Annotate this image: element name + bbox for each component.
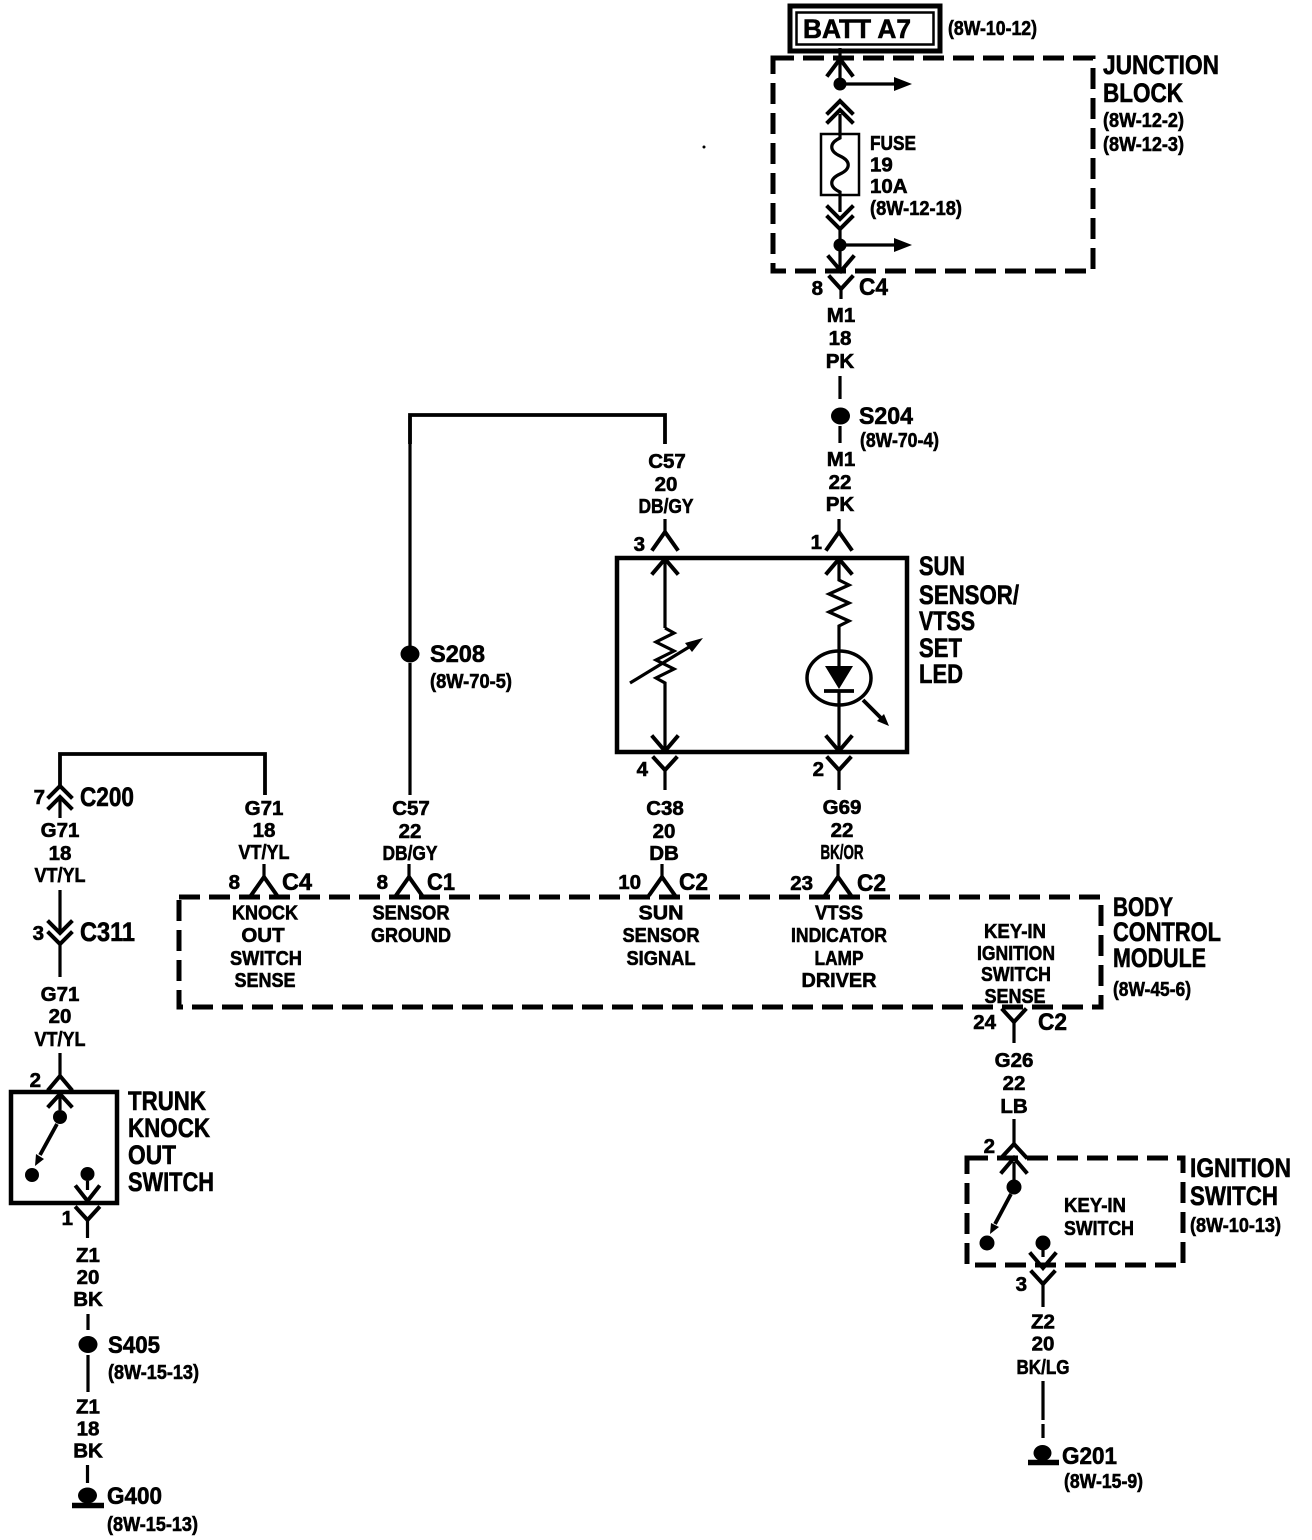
svg-text:(8W-15-13): (8W-15-13): [108, 1361, 199, 1384]
svg-text:OUT: OUT: [128, 1140, 176, 1170]
svg-text:VT/YL: VT/YL: [239, 841, 290, 864]
svg-text:20: 20: [655, 473, 678, 496]
scan noise dot: [703, 146, 706, 149]
wire to pin 4 exit arrow: [653, 687, 677, 751]
svg-text:18: 18: [829, 327, 852, 350]
wire label G71 20 VT/YL: [35, 983, 86, 1051]
wire M1 18 PK segment: [838, 376, 841, 399]
svg-text:3: 3: [634, 533, 645, 556]
photocell variable resistor: [630, 628, 703, 687]
svg-text:IGNITION: IGNITION: [1190, 1153, 1291, 1183]
svg-text:SENSE: SENSE: [985, 985, 1046, 1008]
LED VTSS set indicator: [807, 651, 889, 726]
reference (8W-10-12) for BATT A7: [948, 17, 1037, 40]
reference (8W-15-9): [1064, 1470, 1143, 1493]
body control module label: [1113, 892, 1221, 1001]
svg-text:M1: M1: [827, 448, 855, 471]
fuse label FUSE 19 10A (8W-12-18): [870, 132, 962, 220]
svg-text:10A: 10A: [870, 175, 908, 198]
svg-text:C4: C4: [859, 274, 888, 301]
connector pin 1 (sun sensor): [811, 519, 851, 554]
svg-text:20: 20: [49, 1005, 72, 1028]
svg-text:19: 19: [870, 154, 893, 177]
splice S208: [401, 641, 486, 668]
svg-text:SUN: SUN: [919, 551, 965, 581]
in-line connector C311 pin 3: [33, 917, 135, 947]
svg-text:SWITCH: SWITCH: [128, 1167, 214, 1197]
wire Z1 segment: [86, 1314, 89, 1330]
svg-text:GROUND: GROUND: [371, 924, 451, 947]
wire label Z2 20 BK/LG: [1017, 1311, 1070, 1380]
connector pin 2 (ignition switch): [984, 1119, 1026, 1158]
svg-text:(8W-10-13): (8W-10-13): [1190, 1214, 1281, 1237]
svg-text:Z2: Z2: [1031, 1311, 1055, 1334]
svg-text:SENSOR: SENSOR: [373, 902, 450, 925]
in-line connector C200 pin 7: [34, 782, 134, 818]
trunk knock out switch box: [11, 1092, 117, 1203]
svg-text:(8W-45-6): (8W-45-6): [1113, 978, 1191, 1001]
wire label C38 20 DB: [646, 797, 684, 865]
svg-text:S208: S208: [430, 641, 485, 668]
svg-text:3: 3: [33, 922, 44, 945]
pin function sensor ground: [371, 902, 451, 948]
svg-text:1: 1: [62, 1207, 73, 1230]
svg-text:MODULE: MODULE: [1113, 943, 1206, 973]
svg-text:DB/GY: DB/GY: [639, 495, 694, 518]
svg-text:23: 23: [790, 872, 813, 895]
svg-text:S405: S405: [108, 1332, 160, 1359]
wire segment below C311: [58, 944, 61, 977]
svg-text:2: 2: [984, 1135, 995, 1158]
svg-text:PK: PK: [826, 493, 855, 516]
ignition switch dashed box: [967, 1158, 1183, 1265]
wire label M1 22 PK: [826, 448, 855, 516]
svg-text:C200: C200: [80, 782, 134, 812]
svg-text:DB/GY: DB/GY: [383, 842, 438, 865]
svg-text:BK: BK: [73, 1288, 103, 1311]
key-in switch label: [1064, 1194, 1134, 1240]
svg-text:KNOCK: KNOCK: [232, 902, 298, 925]
svg-text:S204: S204: [859, 403, 913, 430]
svg-text:LB: LB: [1000, 1095, 1027, 1118]
svg-text:24: 24: [973, 1011, 996, 1034]
svg-text:18: 18: [253, 819, 276, 842]
svg-text:DB: DB: [649, 842, 679, 865]
key-in switch common contact: [1007, 1180, 1022, 1195]
svg-text:BK/LG: BK/LG: [1017, 1356, 1070, 1379]
svg-text:C311: C311: [80, 917, 135, 947]
svg-text:VT/YL: VT/YL: [35, 864, 86, 887]
sun sensor / VTSS set LED box: [617, 558, 907, 752]
svg-text:BK/OR: BK/OR: [821, 841, 864, 864]
svg-text:Z1: Z1: [76, 1244, 100, 1267]
svg-text:SWITCH: SWITCH: [1190, 1181, 1278, 1211]
resistor (VTSS LED series): [829, 575, 849, 631]
in-line connector chevrons (wire continues): [828, 101, 852, 134]
wire to pin 3 exit arrow: [1031, 1250, 1055, 1268]
key-in switch output contact: [1036, 1236, 1051, 1251]
svg-text:(8W-15-9): (8W-15-9): [1064, 1470, 1143, 1493]
junction block label: [1103, 50, 1219, 156]
trunk switch blade (open): [35, 1124, 57, 1166]
svg-text:OUT: OUT: [241, 924, 285, 947]
svg-text:BLOCK: BLOCK: [1103, 78, 1183, 108]
connector C4 pin 8 (junction block output): [812, 274, 889, 301]
svg-text:JUNCTION: JUNCTION: [1103, 50, 1219, 80]
pin function knock out switch sense: [230, 902, 302, 993]
connector pin 2 (trunk knock out switch): [30, 1053, 71, 1092]
key-in switch open contact: [980, 1236, 995, 1251]
ignition switch label: [1190, 1153, 1291, 1237]
junction dot (feed node): [834, 78, 847, 91]
wire label G71 18 VT/YL (left column): [35, 819, 86, 887]
connector pin 3 (ignition switch): [1016, 1272, 1054, 1307]
svg-text:TRUNK: TRUNK: [128, 1086, 206, 1116]
svg-text:(8W-12-3): (8W-12-3): [1103, 133, 1184, 156]
svg-text:SENSE: SENSE: [235, 969, 296, 992]
trunk knock out switch label: [128, 1086, 214, 1197]
connector pin 4 (below sun sensor): [637, 758, 676, 790]
BCM connector pin 10 C2: [618, 864, 708, 896]
svg-text:2: 2: [30, 1069, 41, 1092]
connector pin 1 (trunk knock out switch): [62, 1207, 99, 1238]
svg-text:VT/YL: VT/YL: [35, 1028, 86, 1051]
wire to pin 1 exit arrow: [77, 1181, 99, 1201]
pin 1 entry arrow inside box: [827, 559, 851, 575]
svg-text:(8W-15-13): (8W-15-13): [107, 1513, 198, 1536]
wire to pin 2 exit arrow: [827, 705, 851, 751]
splice S204: [831, 403, 913, 430]
wire label Z1 20 BK: [73, 1244, 103, 1311]
wire G71 branch horizontal (trunk switch to BCM): [60, 754, 265, 795]
svg-text:BK: BK: [73, 1440, 103, 1463]
svg-text:G71: G71: [245, 797, 284, 820]
wire from S208 branch horizontal: [410, 415, 665, 444]
wire below fuse: [838, 195, 841, 212]
wire resistor to LED: [837, 631, 840, 666]
body control module dashed box: [179, 897, 1101, 1007]
svg-text:G400: G400: [107, 1483, 162, 1510]
svg-text:SENSOR: SENSOR: [623, 924, 700, 947]
svg-text:SWITCH: SWITCH: [1064, 1217, 1134, 1240]
svg-text:C57: C57: [392, 797, 430, 820]
svg-text:G26: G26: [995, 1049, 1034, 1072]
svg-text:G71: G71: [41, 819, 80, 842]
wire to ground G201: [1041, 1381, 1044, 1438]
svg-text:7: 7: [34, 786, 45, 809]
svg-text:22: 22: [831, 819, 854, 842]
svg-text:(8W-12-18): (8W-12-18): [870, 197, 962, 220]
pin function key-in ignition switch sense: [977, 920, 1055, 1008]
wire label C57 20 DB/GY: [639, 450, 694, 518]
svg-text:1: 1: [811, 531, 822, 554]
svg-text:C2: C2: [1038, 1009, 1067, 1036]
svg-text:PK: PK: [826, 350, 855, 373]
feed arrow to other circuits (top): [841, 77, 912, 91]
svg-text:BATT A7: BATT A7: [803, 14, 911, 44]
svg-text:SWITCH: SWITCH: [981, 963, 1051, 986]
svg-text:8: 8: [377, 871, 388, 894]
svg-text:2: 2: [813, 758, 824, 781]
svg-text:INDICATOR: INDICATOR: [791, 924, 887, 947]
svg-text:3: 3: [1016, 1273, 1027, 1296]
svg-text:SUN: SUN: [639, 902, 684, 925]
junction block dashed box: [773, 58, 1093, 271]
fuse 19 10A: [821, 134, 859, 195]
svg-text:(8W-10-12): (8W-10-12): [948, 17, 1037, 40]
ground G400: [72, 1483, 162, 1510]
arrowhead down at junction block bottom edge: [829, 257, 853, 271]
svg-text:18: 18: [77, 1418, 100, 1441]
svg-text:(8W-12-2): (8W-12-2): [1103, 109, 1184, 132]
wire to ground G400: [86, 1465, 89, 1483]
svg-text:20: 20: [1032, 1333, 1055, 1356]
svg-text:(8W-70-5): (8W-70-5): [430, 670, 512, 693]
svg-text:(8W-70-4): (8W-70-4): [860, 429, 939, 452]
BCM connector pin 8 C4: [229, 864, 313, 896]
wire label M1 18 PK: [826, 304, 855, 373]
reference (8W-70-4): [860, 429, 939, 452]
wire below S204: [838, 426, 841, 443]
svg-text:4: 4: [637, 758, 649, 781]
svg-text:10: 10: [618, 871, 641, 894]
pin function VTSS indicator lamp driver: [791, 902, 887, 993]
svg-text:20: 20: [77, 1266, 100, 1289]
BCM connector pin 23 C2: [790, 864, 886, 897]
svg-text:LAMP: LAMP: [815, 947, 864, 970]
svg-text:C2: C2: [679, 869, 708, 896]
svg-text:C4: C4: [282, 869, 312, 896]
trunk switch common contact: [53, 1110, 67, 1124]
ground G201: [1028, 1443, 1117, 1470]
svg-text:LED: LED: [919, 659, 963, 689]
battery feed box BATT A7: [790, 6, 940, 51]
svg-text:8: 8: [812, 277, 823, 300]
svg-text:22: 22: [1003, 1072, 1026, 1095]
reference (8W-70-5): [430, 670, 512, 693]
svg-text:KEY-IN: KEY-IN: [1064, 1194, 1126, 1217]
wire label C57 22 DB/GY: [383, 797, 438, 865]
svg-text:VTSS: VTSS: [919, 606, 975, 636]
reference (8W-15-13) for G400: [107, 1513, 198, 1536]
key-in switch blade (open): [990, 1194, 1011, 1234]
svg-text:C1: C1: [427, 869, 455, 896]
svg-text:22: 22: [399, 820, 422, 843]
svg-text:KEY-IN: KEY-IN: [984, 920, 1046, 943]
wire to lower junction dot: [838, 229, 841, 269]
connector pin 2 (below sun sensor): [813, 758, 850, 790]
svg-text:22: 22: [829, 471, 852, 494]
BCM connector pin 24 C2: [973, 1009, 1067, 1043]
svg-text:SIGNAL: SIGNAL: [627, 947, 696, 970]
sun sensor label: [919, 551, 1020, 689]
pin 2 entry arrow inside ignition switch: [1002, 1158, 1026, 1180]
connector pin 3 (sun sensor): [634, 519, 677, 556]
wire label G71 18 VT/YL (BCM branch): [239, 797, 290, 864]
trunk switch open contact: [25, 1168, 39, 1182]
svg-text:IGNITION: IGNITION: [977, 942, 1055, 965]
pin 2 entry arrow inside trunk switch: [49, 1094, 71, 1110]
svg-text:KNOCK: KNOCK: [128, 1113, 210, 1143]
splice S405: [79, 1332, 161, 1359]
svg-text:C38: C38: [646, 797, 684, 820]
wire segment to C311: [58, 890, 61, 931]
svg-text:G71: G71: [41, 983, 80, 1006]
svg-text:G201: G201: [1062, 1443, 1117, 1470]
junction dot (lower feed node): [834, 239, 847, 252]
in-line connector chevrons below fuse: [828, 207, 852, 229]
pin function sun sensor signal: [623, 902, 700, 971]
svg-text:DRIVER: DRIVER: [802, 969, 877, 992]
reference (8W-15-13) for S405: [108, 1361, 199, 1384]
arrowhead up at junction block top edge: [828, 59, 852, 75]
wire from S208 down to BCM: [408, 663, 411, 795]
svg-text:G69: G69: [823, 796, 862, 819]
pin 3 entry arrow inside box: [653, 559, 677, 628]
wire label Z1 18 BK: [73, 1396, 103, 1463]
svg-text:VTSS: VTSS: [815, 902, 863, 925]
svg-text:FUSE: FUSE: [870, 132, 916, 155]
trunk switch output contact: [81, 1167, 95, 1181]
wire below S405: [86, 1355, 89, 1392]
wire from corner down to S208: [408, 416, 411, 647]
svg-text:SWITCH: SWITCH: [230, 947, 302, 970]
svg-text:M1: M1: [827, 304, 855, 327]
BCM connector pin 8 C1: [377, 864, 455, 896]
svg-text:C2: C2: [857, 870, 886, 897]
wire label G26 22 LB: [995, 1049, 1034, 1118]
wire label G69 22 BK/OR: [821, 796, 864, 864]
svg-text:Z1: Z1: [76, 1396, 100, 1419]
wire from BATT A7 into junction block: [838, 48, 841, 84]
feed arrow to other circuits (bottom): [841, 238, 912, 252]
svg-text:18: 18: [49, 842, 72, 865]
svg-text:8: 8: [229, 871, 240, 894]
svg-text:C57: C57: [648, 450, 686, 473]
svg-text:20: 20: [653, 820, 676, 843]
